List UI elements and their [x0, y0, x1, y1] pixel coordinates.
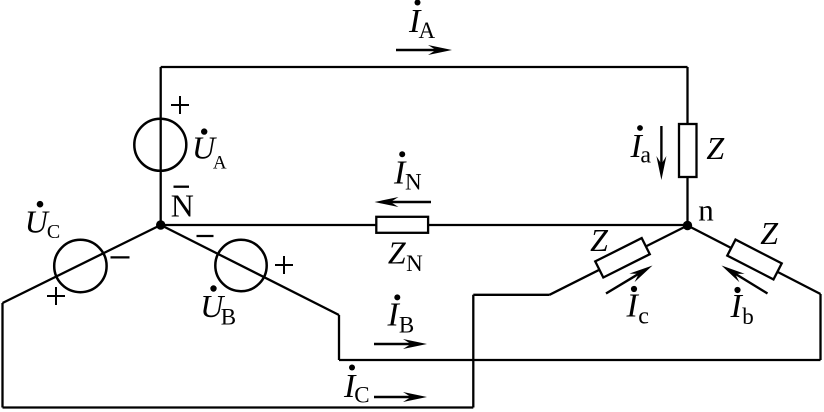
label U_B	[200, 285, 236, 329]
label I_B	[387, 294, 415, 337]
arrow current I_N	[375, 197, 432, 207]
svg-text:A: A	[213, 152, 227, 173]
impedance Z phase b	[727, 240, 781, 280]
arrow current I_b	[719, 261, 768, 293]
wire C-phase horizontal	[473, 294, 549, 296]
arrow current I_A	[396, 45, 452, 55]
svg-text:Z: Z	[706, 130, 725, 166]
impedance Z phase a	[679, 124, 697, 177]
plus sign of U_C	[47, 287, 65, 305]
svg-text:N: N	[405, 170, 422, 195]
label I_C	[343, 365, 370, 408]
svg-text:a: a	[640, 143, 651, 169]
minus sign of U_C	[111, 256, 130, 258]
label I_c	[626, 286, 649, 330]
wire C-load diagonal	[550, 226, 688, 295]
svg-text:N: N	[171, 188, 194, 224]
wire A-load vertical	[686, 67, 688, 226]
label I_a	[630, 125, 652, 169]
wire C-phase riser	[472, 295, 474, 408]
wire C-source diagonal	[3, 225, 161, 303]
svg-text:n: n	[698, 193, 714, 228]
svg-text:Z: Z	[590, 222, 609, 258]
label I_N	[393, 151, 422, 194]
label U_A	[192, 128, 227, 173]
svg-text:B: B	[221, 305, 236, 330]
label U_C	[25, 201, 60, 243]
minus sign of U_B	[197, 235, 214, 237]
label I_b	[730, 287, 754, 329]
label Z_N	[388, 234, 423, 276]
label I_A	[408, 0, 436, 43]
label node n	[698, 193, 714, 228]
arrow current I_c	[606, 261, 655, 293]
svg-text:Z: Z	[760, 215, 779, 251]
svg-text:b: b	[742, 304, 754, 329]
svg-text:C: C	[47, 221, 60, 243]
wire B-source diagonal	[161, 225, 339, 315]
arrow current I_C	[374, 392, 427, 402]
svg-text:A: A	[419, 18, 436, 43]
arrow current I_a	[656, 126, 666, 180]
source U_B circle	[215, 240, 266, 291]
minus sign of U_A	[174, 186, 190, 188]
label Z phase a	[706, 130, 725, 166]
svg-text:Z: Z	[388, 234, 407, 270]
arrow current I_B	[374, 339, 427, 349]
wire bottom C-phase	[3, 406, 474, 408]
source U_A circle	[134, 119, 186, 171]
svg-text:N: N	[406, 251, 423, 276]
svg-text:B: B	[399, 313, 414, 338]
plus sign of U_B	[275, 256, 293, 274]
node n junction dot	[683, 221, 692, 230]
plus sign of U_A	[171, 96, 189, 114]
node N junction dot	[156, 220, 165, 229]
impedance Z phase c	[595, 238, 650, 277]
label Z phase b	[760, 215, 779, 251]
label node N	[171, 188, 194, 224]
wire B corner vertical	[338, 315, 340, 360]
wire right vertical	[819, 294, 821, 360]
impedance Z_N	[376, 217, 428, 233]
svg-text:c: c	[638, 304, 649, 330]
source U_C circle	[54, 240, 106, 292]
label Z phase c	[590, 222, 609, 258]
wire top A-phase	[161, 66, 688, 68]
wire left vertical	[1, 303, 3, 408]
wire neutral N-n	[161, 224, 688, 226]
svg-text:C: C	[354, 383, 369, 408]
wire B-phase horizontal	[339, 359, 821, 361]
wire A-source vertical	[160, 67, 162, 225]
wire B-load diagonal	[688, 226, 821, 295]
